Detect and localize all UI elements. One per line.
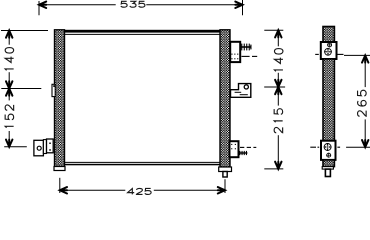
dim 140 left arrows (6, 31, 12, 38)
drier bottom centerline right (337, 146, 340, 148)
lower-right fitting thread (239, 152, 248, 154)
dim 425 ext left (59, 178, 61, 193)
dim 535 arrows (39, 2, 46, 8)
dim 265 text (358, 90, 367, 116)
dim 535 line (39, 4, 116, 6)
drier top centerline (315, 53, 319, 55)
core top bar (65, 30, 221, 33)
upper-right bracket (231, 84, 251, 98)
lower-left bracket hole (37, 146, 41, 150)
drier bottom fitting symbol large (324, 144, 331, 151)
right bottom stem (223, 172, 227, 178)
right header strip (220, 30, 230, 167)
dim 140/215 shared ext (264, 86, 285, 88)
dim 215 text (274, 109, 282, 133)
dim 265 ext bottom (346, 146, 370, 148)
dim 140 left text (5, 48, 13, 71)
lower-right fitting block (230, 141, 239, 157)
dim 425 text (128, 188, 151, 194)
drier top fitting symbol small (328, 43, 332, 47)
dim 140 right text (274, 49, 282, 72)
dim 215 ext bottom (264, 168, 283, 170)
top-right fitting centerline (242, 55, 250, 57)
dim 425 ext right (224, 179, 226, 193)
dim 215 arrows (275, 87, 281, 94)
dim 140 left line (8, 31, 10, 45)
top-right fitting thread (241, 46, 252, 48)
upper-left tab (52, 84, 55, 96)
dim 152 text (5, 105, 13, 128)
drier bar mid section (323, 59, 334, 141)
dim 265 arrows (362, 55, 368, 62)
dim 535 ext right (242, 0, 244, 15)
dim 265 ext top (344, 54, 370, 56)
dim 152 arrows (6, 89, 12, 96)
dim 265 line (364, 55, 366, 87)
drier bottom stem (325, 169, 330, 176)
lower-left bracket tab (43, 140, 46, 154)
left header strip (55, 30, 65, 167)
drier bottom fitting block (321, 141, 336, 160)
dim 425 arrows (60, 187, 67, 193)
drier bottom cap (322, 167, 333, 170)
dim 140 right arrows (275, 30, 281, 37)
upper-right bracket hole (244, 85, 248, 89)
right header bottom cap (219, 167, 232, 172)
core bottom bar (65, 164, 221, 166)
lower-right fitting centerline (240, 146, 244, 148)
left header bottom cap (54, 167, 65, 171)
dim 535 text (121, 1, 145, 7)
drier bottom centerline left (310, 146, 316, 148)
lower-left bracket plate2 (47, 139, 54, 153)
core bottom thin line (65, 161, 221, 163)
drier bar top section (323, 27, 334, 43)
dim 535 ext left (38, 1, 40, 15)
core top thin line (65, 33, 221, 35)
dim 140 left ext top (1, 30, 48, 32)
drier bar lower section (323, 160, 334, 167)
drier top fitting symbol large (325, 48, 332, 55)
drier bottom fitting symbol small (327, 153, 331, 157)
dim 140 right ext top (264, 29, 283, 31)
dim 140 right line (277, 30, 279, 46)
dim 425 line (60, 189, 126, 191)
top-right fitting block (230, 42, 240, 62)
dim 140/152 shared ext (1, 88, 41, 90)
lower-left bracket plate (34, 140, 44, 156)
drier top fitting block (321, 42, 337, 59)
dim 152 ext bottom (4, 146, 27, 148)
